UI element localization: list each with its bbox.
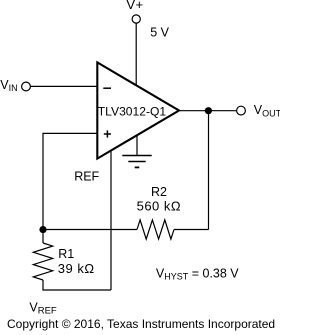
ground [122, 155, 151, 157]
wire feedback horizontal [43, 229, 137, 231]
resistor R1 [33, 243, 52, 280]
svg-text:5 V: 5 V [150, 26, 169, 40]
junction output node [205, 107, 212, 114]
resistor R2 [137, 220, 174, 239]
wire R2 right [174, 229, 209, 231]
svg-text:R2: R2 [151, 185, 167, 199]
junction node A [39, 226, 46, 233]
wire node A to R1 [42, 230, 44, 244]
wire VIN to inverting input [31, 85, 97, 87]
wire V+ to op-amp top [135, 23, 137, 85]
wire non-inverting input to node A [43, 133, 98, 229]
svg-text:TLV3012-Q1: TLV3012-Q1 [98, 104, 167, 118]
wire REF pin stem [110, 151, 112, 290]
op-amp U1 TLV3012-Q1 [97, 62, 179, 158]
svg-text:560 kΩ: 560 kΩ [137, 199, 182, 214]
terminal VIN [22, 82, 31, 91]
wire ground stem [136, 135, 138, 155]
svg-text:REF: REF [74, 170, 99, 184]
svg-text:VHYST = 0.38 V: VHYST = 0.38 V [156, 266, 239, 281]
terminal V+ [132, 15, 140, 23]
wire R1 bottom to VREF node [43, 280, 111, 290]
terminal VOUT [237, 106, 246, 115]
svg-text:VIN: VIN [0, 78, 17, 93]
wire output [180, 110, 236, 112]
pin minus (inverting input) [103, 87, 111, 89]
svg-text:R1: R1 [58, 247, 74, 261]
wire feedback vertical from output node [208, 111, 210, 230]
svg-text:VOUT: VOUT [254, 103, 280, 118]
svg-text:V+: V+ [126, 0, 143, 12]
svg-text:Copyright © 2016, Texas Instru: Copyright © 2016, Texas Instruments Inco… [7, 317, 275, 331]
svg-text:VREF: VREF [29, 301, 57, 317]
pin plus (non-inverting input) [104, 133, 111, 135]
svg-text:39 kΩ: 39 kΩ [58, 261, 95, 276]
